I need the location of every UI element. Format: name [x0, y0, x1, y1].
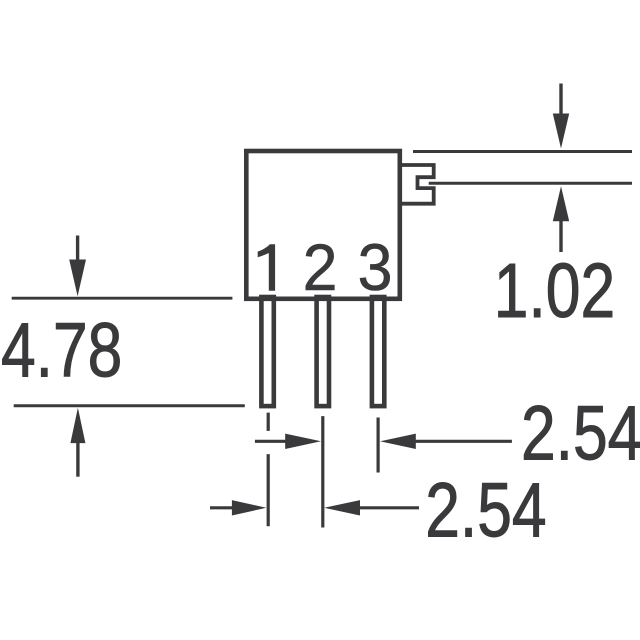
down arrow tail right dim — [559, 84, 562, 117]
lower 2.54 dim line left tail — [210, 506, 233, 509]
lower 2.54 dim line right tail — [358, 506, 419, 509]
pin 2 lead — [317, 297, 329, 406]
upper 2.54 dim line right tail — [414, 440, 512, 443]
pin 3 lead — [372, 297, 384, 406]
arrowhead right lower 2.54 — [232, 500, 266, 515]
up arrow tail right dim — [559, 220, 562, 252]
extension line top surface right — [413, 150, 632, 153]
svg-text:4.78: 4.78 — [1, 307, 122, 393]
arrowhead left lower 2.54 — [324, 500, 360, 515]
pin 1 center extension dash 1 — [267, 413, 270, 431]
svg-text:2.54: 2.54 — [425, 467, 546, 553]
extension line slot bottom right — [429, 182, 632, 185]
svg-text:3: 3 — [358, 231, 393, 305]
arrowhead down left dim — [69, 260, 86, 297]
svg-text:2: 2 — [303, 231, 338, 305]
arrowhead up right dim — [553, 186, 569, 221]
adjustment screw tab with slot notch — [402, 165, 434, 204]
pin 1 center extension dash 2 — [267, 454, 270, 526]
upper 2.54 dim line left tail — [255, 440, 287, 443]
arrowhead down right dim — [553, 114, 569, 149]
extension line body bottom left — [12, 297, 233, 300]
arrowhead left upper 2.54 — [380, 434, 416, 449]
arrowhead right upper 2.54 — [285, 434, 321, 449]
extension line pin tip left — [14, 404, 245, 407]
pin 1 lead — [261, 297, 273, 406]
svg-text:1.02: 1.02 — [494, 248, 615, 334]
down arrow tail left dim — [76, 236, 79, 263]
pin 3 center extension line — [377, 418, 380, 473]
pin label 1 — [258, 244, 275, 291]
svg-text:2.54: 2.54 — [521, 390, 640, 476]
trimmer body outline — [246, 151, 399, 299]
up arrow tail left dim — [76, 442, 79, 477]
arrowhead up left dim — [70, 408, 85, 443]
pin 2 center extension line — [321, 416, 324, 527]
